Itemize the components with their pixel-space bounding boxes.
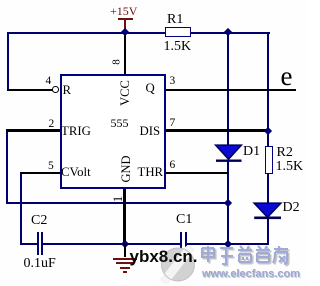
resistor R1 label [167,13,183,27]
capacitor C1 plates [180,232,182,255]
diode D1 [213,143,245,165]
capacitor C2 value 0.1uF [24,257,56,271]
pin 4 wire (R input) [7,89,53,91]
junction dot ground bus / D1 branch [224,240,232,248]
watermark chinese characters [199,244,291,268]
wire: ground bus segment C1 to D2 branch [187,243,270,245]
junction dot ground bus / pin 1 [120,240,128,248]
pin number 1 rotated [111,195,124,201]
capacitor C2 plates [37,232,39,255]
power +15V bar [118,18,133,20]
ground stem [124,244,126,257]
power +15V stem [124,20,126,30]
watermark logo circle [159,246,197,284]
pin number 4 [46,76,52,88]
junction dot top rail / D1 branch [224,28,232,36]
wire: D1 branch vertical lower (D1 cathode to ground bus) [227,161,229,245]
wire: left vertical from pin 2 down to lower bus [6,130,8,204]
resistor R1 value 1.5K [164,40,192,54]
wire: ground bus segment C2 to C1 [43,243,181,245]
pin 7 wire (DIS to R2 branch) [165,129,268,131]
IC label GND rotated [119,155,132,182]
resistor R2 value 1.5K [276,160,304,174]
pin number 2 [49,119,55,131]
resistor R1 body [165,27,192,37]
watermark text ybx8.cn [130,247,198,267]
pin 2 wire (TRIG) [6,129,60,131]
pin number 3 [170,76,176,88]
resistor R2 body [265,146,274,174]
diode D2 [252,201,284,223]
pin number 8 rotated [112,59,123,65]
resistor R2 label [277,146,293,160]
node e label [281,63,293,90]
junction dot lower bus / D1 branch [224,198,232,206]
IC label DIS (pin 7) [140,125,161,138]
capacitor C1 label [176,213,192,227]
capacitor C2 label [31,214,47,228]
diode D2 label [283,201,300,215]
IC label THR (pin 6) [138,166,164,179]
pin 1 wire (GND vertical) [123,188,125,244]
wire: R2 branch vertical middle (R2 to D2 anode) [267,174,269,204]
pin 8 wire (VCC vertical) [124,33,126,75]
wire: top rail left segment (+15V net) [7,32,165,34]
pin 3 wire (Q output to node e) [165,89,296,91]
op IC U1: 555 timer body [60,74,166,189]
IC label CVolt (pin 5) [61,166,91,179]
wire: ground bus segment left of C2 [20,243,38,245]
pin number 6 [170,160,176,172]
pin 5 wire (CVolt) [20,172,61,174]
diode D1 label [243,145,260,159]
pin 6 wire (THR to D1 branch) [165,172,229,174]
wire: R2 branch vertical upper (top rail to R2) [267,32,269,147]
watermark url www.elecfans.com [202,268,300,280]
power +15V label [110,5,137,17]
IC label R (pin 4) [63,84,72,97]
pin 4 inversion bubble [52,86,59,93]
ground symbol bars [113,258,137,260]
wire: left vertical from top rail to pin 4 [7,32,9,91]
junction dot pin 7 / R2 branch [264,126,272,134]
wire: D1 branch vertical upper (top rail to D1 anode) [227,32,229,146]
IC label TRIG (pin 2) [61,125,91,138]
IC label VCC rotated [119,80,132,106]
pin number 5 [48,161,54,173]
IC label Q (pin 3) [146,82,155,95]
wire: D2 cathode to ground bus [267,219,269,246]
junction dot at +15V / pin 8 [121,28,129,36]
wire: lower horizontal bus (TRIG net) [6,202,229,204]
wire: vertical from pin 5 down to ground bus [20,172,22,245]
wire: top rail right segment R1 to right branch [191,32,270,34]
IC label 555 [111,117,129,129]
pin number 7 [170,118,176,130]
